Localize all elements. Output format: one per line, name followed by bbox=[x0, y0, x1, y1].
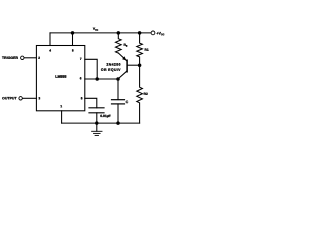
svg-text:R2: R2 bbox=[144, 92, 148, 96]
wire pin 8 stub bbox=[72, 33, 74, 46]
capacitor C bottom plate bbox=[112, 103, 125, 105]
ground hash 2 bbox=[94, 132, 101, 134]
svg-text:6: 6 bbox=[80, 76, 82, 80]
wire pin 4 stub bbox=[49, 33, 51, 46]
node junction collector/pin6/C bbox=[116, 77, 120, 81]
svg-text:3: 3 bbox=[38, 96, 40, 100]
wire pin 6 to collector node bbox=[85, 78, 118, 80]
node junction C/ground rail bbox=[116, 121, 120, 125]
terminal circle OUTPUT bbox=[19, 97, 22, 100]
resistor R2 bbox=[137, 65, 143, 123]
wire Vcc top rail bbox=[50, 32, 151, 34]
node junction pin8/Vcc bbox=[71, 31, 75, 35]
capacitor C2 bottom lead bbox=[96, 113, 98, 123]
IC U1 LM555 timer box bbox=[36, 46, 84, 111]
node junction RE/Vcc bbox=[117, 31, 121, 35]
capacitor C2 0.01uF top plate bbox=[89, 107, 104, 109]
svg-text:R1: R1 bbox=[145, 48, 149, 52]
transistor Q1 base bar bbox=[126, 60, 128, 72]
svg-text:8: 8 bbox=[72, 48, 74, 52]
terminal circle TRIGGER bbox=[21, 56, 24, 59]
node junction R1/R2/base bbox=[138, 63, 142, 67]
wire pin 7 to node bbox=[85, 59, 97, 79]
wire pin 5 to C2 bbox=[85, 98, 97, 108]
svg-text:OR EQUIV: OR EQUIV bbox=[101, 68, 121, 72]
transistor Q1 collector bbox=[118, 71, 127, 79]
wire output bbox=[22, 97, 36, 99]
svg-text:2N4250: 2N4250 bbox=[106, 63, 120, 67]
capacitor C bottom lead bbox=[117, 104, 119, 123]
terminal circle +Vcc bbox=[151, 31, 155, 35]
svg-text:LM555: LM555 bbox=[55, 75, 66, 79]
svg-text:2: 2 bbox=[38, 56, 40, 60]
node junction R1/Vcc bbox=[138, 31, 142, 35]
wire trigger input bbox=[24, 57, 36, 59]
wire bottom ground rail bbox=[62, 122, 140, 124]
wire pin 1 ground stub bbox=[61, 111, 63, 123]
ground stub bbox=[96, 123, 98, 131]
svg-text:OUTPUT: OUTPUT bbox=[2, 96, 17, 100]
capacitor C top lead bbox=[117, 79, 119, 100]
transistor Q1 emitter bbox=[118, 53, 126, 61]
ground hash 1 bbox=[92, 130, 102, 132]
svg-text:0.01µF: 0.01µF bbox=[100, 114, 110, 118]
svg-text:5: 5 bbox=[81, 96, 83, 100]
resistor RE bbox=[116, 33, 122, 53]
svg-text:4: 4 bbox=[49, 48, 51, 52]
svg-text:TRIGGER: TRIGGER bbox=[2, 56, 18, 60]
capacitor C top plate bbox=[112, 99, 125, 101]
svg-text:1: 1 bbox=[60, 104, 62, 108]
transistor Q1 base wire bbox=[128, 64, 140, 66]
svg-text:7: 7 bbox=[80, 57, 82, 61]
svg-text:C: C bbox=[126, 100, 129, 104]
capacitor C2 0.01uF bottom plate bbox=[89, 112, 104, 114]
transistor Q1 emitter arrowhead bbox=[122, 56, 126, 60]
node junction C2/ground rail bbox=[95, 121, 98, 124]
resistor R1 bbox=[137, 33, 143, 65]
ground hash 3 bbox=[95, 134, 98, 136]
node junction pin7/pin6 bbox=[95, 77, 99, 81]
